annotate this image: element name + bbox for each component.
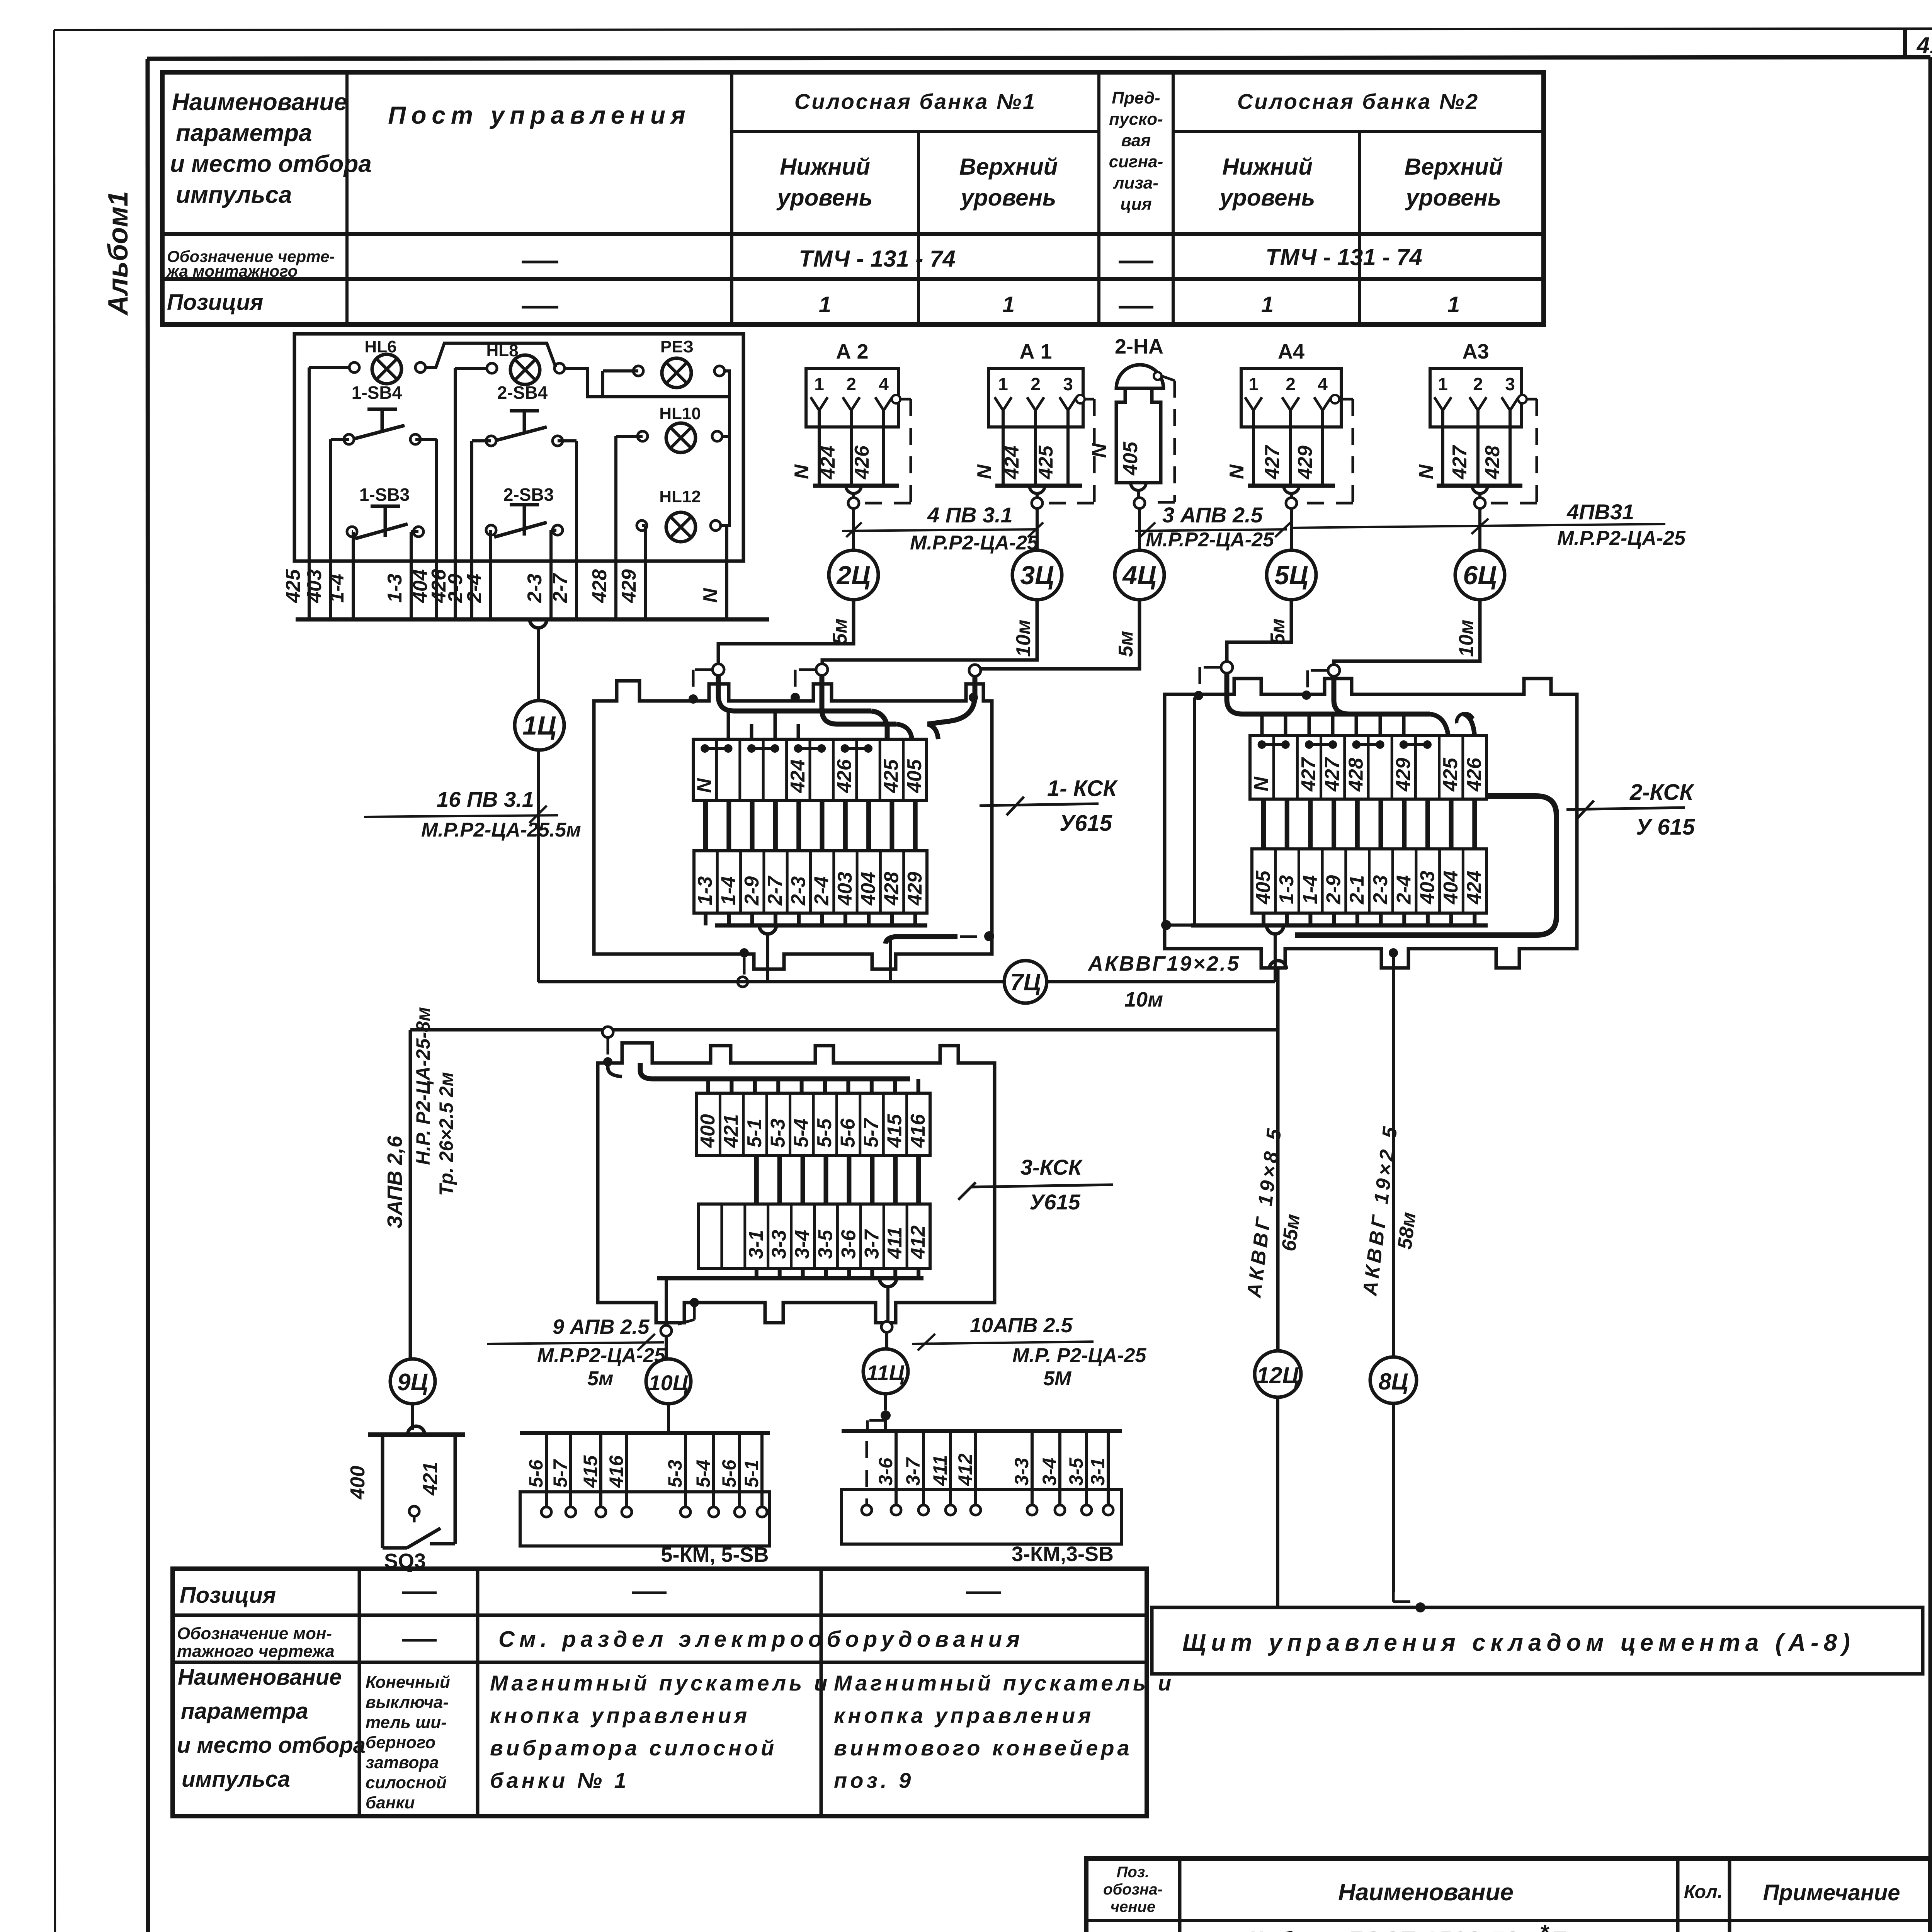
svg-text:выключа-: выключа- [366,1693,449,1712]
svg-text:5-4: 5-4 [692,1460,714,1488]
svg-text:405: 405 [1252,870,1274,905]
svg-text:6Ц: 6Ц [1463,561,1497,590]
svg-text:2-SВ4: 2-SВ4 [497,383,548,403]
specification header [1103,1864,1900,1915]
svg-text:5-6: 5-6 [718,1459,740,1488]
top parameter table [162,72,1544,325]
svg-text:уровень: уровень [1219,185,1315,211]
terminal box 2-KCK outline [1165,679,1577,968]
svg-text:А3: А3 [1462,340,1489,363]
wire 5Ts to 2-KCK [1227,600,1291,662]
lamp HL12 [637,487,721,542]
cable circle 10Ts [646,1359,691,1431]
svg-text:А 1: А 1 [1019,340,1052,363]
svg-text:1-SВ3: 1-SВ3 [359,485,410,505]
svg-text:3-4: 3-4 [791,1230,814,1259]
control post box [294,334,743,561]
svg-text:HL10: HL10 [659,404,701,423]
svg-text:426: 426 [833,759,856,793]
svg-text:банки № 1: банки № 1 [490,1768,629,1793]
svg-text:Позиция: Позиция [167,290,263,315]
svg-text:2-4: 2-4 [463,574,486,603]
svg-text:5-6: 5-6 [837,1118,859,1148]
cable circle 12Ts [1255,1351,1301,1607]
svg-text:затвора: затвора [366,1753,439,1772]
svg-text:3-7: 3-7 [902,1457,924,1486]
push button 1-SB3 [347,485,423,539]
svg-text:8Ц: 8Ц [1378,1369,1408,1395]
svg-text:428: 428 [1481,446,1504,480]
svg-text:Наименование: Наименование [172,89,347,116]
svg-text:Кабель ГОСТ 1508-78: Кабель ГОСТ 1508-78 [1248,1927,1519,1932]
cable circle 1Ts [515,701,564,750]
svg-text:405: 405 [903,759,926,793]
bottom position table [173,1569,1147,1816]
svg-text:уровень: уровень [776,185,873,211]
svg-text:5-1: 5-1 [743,1119,766,1148]
2-KCK entry circles and pe dashes [1194,662,1340,700]
lamp HL10 [638,404,722,452]
svg-text:2-НА: 2-НА [1115,335,1163,358]
2-KCK bottom bus, right loop [1161,697,1556,982]
svg-text:Щит управления складом цеме: Щит управления складом цемента (А-8) [1182,1629,1855,1656]
svg-text:импульса: импульса [176,182,292,208]
svg-text:N: N [699,588,722,603]
bus wire labels [282,569,722,603]
svg-text:7Ц: 7Ц [1010,969,1041,996]
svg-text:5-3: 5-3 [767,1119,789,1148]
svg-text:Верхний: Верхний [1405,154,1503,180]
svg-text:РЕЗ: РЕЗ [660,337,694,356]
cable label 4 PV 3.1 [842,503,1043,554]
svg-text:425: 425 [1439,757,1462,792]
1-KCK upper terminal strip [693,739,927,800]
svg-text:2-3: 2-3 [524,574,546,603]
svg-text:2-1: 2-1 [1346,875,1368,905]
svg-text:405: 405 [1119,441,1142,476]
2-KCK bundle above upper strip [1227,667,1475,735]
cable label 10 APV 2.5 [912,1314,1146,1390]
svg-text:Тр. 26×2.5 2м: Тр. 26×2.5 2м [435,1072,457,1196]
svg-text:416: 416 [907,1114,929,1148]
svg-text:Кол.: Кол. [1684,1882,1723,1902]
svg-text:2-7: 2-7 [764,876,786,906]
2-KCK upper terminal strip [1250,735,1486,799]
svg-text:403: 403 [303,569,326,603]
svg-text:N: N [1250,776,1273,791]
svg-text:1: 1 [814,374,824,394]
svg-text:N: N [973,464,996,479]
svg-text:1-3: 1-3 [384,574,406,603]
svg-text:9Ц: 9Ц [397,1369,428,1396]
svg-text:10м: 10м [1124,988,1163,1011]
1-KCK bundle above upper strip [718,670,975,739]
svg-text:Поз.: Поз. [1117,1864,1150,1881]
svg-text:412: 412 [907,1225,929,1259]
svg-text:11Ц: 11Ц [867,1361,905,1385]
svg-text:5М: 5М [1043,1367,1072,1390]
8Ts riser from 2-KCK [1389,948,1398,1357]
svg-text:Пост управления: Пост управления [388,101,690,129]
terminal box 3-KM,3-SB [842,1431,1122,1566]
cable label 16 PV 3.1 [364,787,581,841]
svg-text:1-4: 1-4 [1299,875,1321,904]
svg-text:5Ц: 5Ц [1274,561,1308,590]
svg-text:2: 2 [1031,374,1041,394]
svg-text:426: 426 [851,445,873,480]
specification table [1086,1859,1930,1932]
svg-text:*: * [1540,1920,1549,1932]
svg-text:403: 403 [834,872,856,906]
svg-text:425: 425 [1035,445,1057,480]
svg-text:А4: А4 [1278,340,1304,363]
svg-text:416: 416 [605,1455,627,1488]
svg-text:N: N [693,778,716,793]
svg-text:3-6: 3-6 [837,1230,860,1259]
svg-text:427: 427 [1321,757,1344,792]
limit switch SQ3 [347,1426,465,1573]
svg-text:411: 411 [929,1455,951,1486]
terminal box 1-KCK outline [594,681,992,969]
svg-text:У615: У615 [1029,1190,1080,1214]
svg-text:1- КСК: 1- КСК [1047,776,1118,801]
svg-text:N: N [1088,443,1111,458]
svg-text:425: 425 [282,569,304,603]
svg-text:65м: 65м [1277,1213,1304,1253]
svg-text:1-SВ4: 1-SВ4 [352,383,402,403]
3-KCK upper terminal strip [697,1093,930,1156]
svg-text:У615: У615 [1060,811,1112,836]
svg-text:16 ПВ 3.1: 16 ПВ 3.1 [437,787,534,811]
svg-text:404: 404 [857,872,879,906]
svg-text:Обозначение мон-: Обозначение мон- [177,1624,332,1643]
svg-text:424: 424 [817,446,839,480]
svg-text:параметра: параметра [176,120,312,146]
svg-text:5-7: 5-7 [549,1459,571,1488]
svg-text:428: 428 [1345,758,1367,792]
svg-text:Альбом1: Альбом1 [103,191,134,316]
svg-text:4ПВ31: 4ПВ31 [1566,500,1634,524]
svg-text:2-9: 2-9 [1322,875,1345,905]
top table header texts [170,88,1503,214]
svg-text:вая: вая [1121,131,1151,150]
svg-text:2-3: 2-3 [787,876,810,906]
svg-text:3: 3 [1505,374,1515,394]
svg-text:уровень: уровень [960,185,1056,211]
svg-text:5-7: 5-7 [860,1118,883,1148]
wire bus under control post [296,619,769,628]
svg-text:9 АПВ 2.5: 9 АПВ 2.5 [553,1315,650,1338]
cable circle 7Ts [1004,961,1047,1003]
svg-text:1-3: 1-3 [694,876,716,905]
svg-text:N: N [1226,464,1248,479]
wire 6Ts to 2-KCK [1334,598,1480,665]
svg-text:См. раздел электрооборудовани: См. раздел электрооборудования [498,1627,1024,1652]
svg-text:1: 1 [1248,374,1259,394]
svg-text:1: 1 [1438,374,1448,394]
svg-text:5м: 5м [1115,631,1137,657]
svg-text:3-1: 3-1 [1087,1458,1109,1486]
svg-text:Пред-: Пред- [1112,88,1160,107]
svg-text:вибратора силосной: вибратора силосной [490,1736,777,1760]
svg-text:кнопка управления: кнопка управления [834,1703,1094,1728]
svg-text:тель ши-: тель ши- [366,1713,447,1732]
svg-text:М.Р.Р2-ЦА-25: М.Р.Р2-ЦА-25 [1557,527,1686,549]
svg-text:3-5: 3-5 [814,1230,837,1259]
svg-text:1-4: 1-4 [326,574,348,603]
svg-text:2-4: 2-4 [1393,875,1415,905]
svg-text:уровень: уровень [1405,185,1502,211]
svg-text:ЗАПВ 2,6: ЗАПВ 2,6 [383,1136,406,1229]
svg-text:2-SВ3: 2-SВ3 [503,485,554,505]
wire 2Ts to 1-KCK [718,600,854,664]
svg-text:3-КСК: 3-КСК [1020,1155,1083,1179]
svg-text:поз. 9: поз. 9 [834,1768,914,1793]
svg-text:426: 426 [1463,757,1485,792]
svg-text:3-6: 3-6 [875,1458,896,1486]
svg-text:424: 424 [1463,871,1486,905]
svg-text:5-4: 5-4 [790,1119,813,1148]
svg-text:425: 425 [880,759,902,793]
svg-text:403: 403 [1416,871,1439,905]
svg-text:10АПВ 2.5: 10АПВ 2.5 [970,1314,1073,1337]
3-KCK bottom bus [657,1269,923,1287]
label 2-KCK U615 [1566,780,1695,840]
svg-text:1-3: 1-3 [1276,875,1298,904]
svg-text:параметра: параметра [181,1699,308,1724]
cable labels on 8Ts riser [1359,1122,1420,1298]
svg-text:1: 1 [819,292,831,317]
svg-text:1: 1 [1447,292,1460,317]
album label [103,191,134,316]
svg-text:ция: ция [1120,195,1151,214]
svg-text:У 615: У 615 [1636,815,1695,840]
svg-text:и место отбора: и место отбора [170,151,372,177]
3-KCK inter-strip connectors [757,1156,918,1204]
wire 11Ts [863,1287,892,1349]
svg-text:2-4: 2-4 [811,876,833,906]
lamp PE3 [633,337,724,388]
svg-text:М.Р.Р2-ЦА-25: М.Р.Р2-ЦА-25 [1146,529,1274,551]
svg-text:411: 411 [884,1227,906,1259]
label 3-KCK U615 [958,1155,1113,1214]
2-KCK inter-strip connectors [1264,799,1475,849]
svg-text:2: 2 [1286,374,1296,394]
label 1-KCK U615 [980,776,1118,836]
svg-text:Е: Е [1551,1927,1566,1932]
svg-text:421: 421 [720,1114,743,1148]
svg-text:N: N [791,464,813,479]
svg-text:427: 427 [1449,445,1471,480]
3-KCK lower terminal strip [699,1204,930,1269]
svg-text:424: 424 [787,759,809,793]
svg-text:3: 3 [1063,374,1073,394]
svg-text:Примечание: Примечание [1763,1880,1900,1905]
svg-text:и место отбора: и место отбора [177,1733,366,1758]
svg-text:2-3: 2-3 [1369,875,1392,905]
svg-text:5-5: 5-5 [813,1118,836,1148]
cable circle 11Ts [863,1349,908,1431]
svg-text:5-3: 5-3 [664,1460,686,1488]
svg-text:тажного чертежа: тажного чертежа [177,1642,335,1661]
svg-text:Наименование: Наименование [1338,1879,1514,1906]
svg-text:Силосная банка №1: Силосная банка №1 [794,89,1036,114]
terminal box 3-KCK outline [598,1043,995,1323]
svg-text:берного: берного [366,1733,435,1752]
svg-text:3-3: 3-3 [1011,1458,1032,1486]
svg-text:Магнитный пускатель и: Магнитный пускатель и [834,1671,1174,1695]
push button 2-SB3 [486,485,563,537]
specification rows [1182,1920,1775,1932]
svg-text:415: 415 [883,1114,906,1148]
page number box 41 [1905,29,1932,58]
cable circle 8Ts [1370,1357,1425,1612]
terminal box 5-KM,5-SB [520,1433,770,1566]
svg-text:винтового конвейера: винтового конвейера [834,1736,1133,1760]
svg-text:1Ц: 1Ц [522,711,556,740]
svg-text:Магнитный пускатель и: Магнитный пускатель и [490,1671,830,1695]
1-KCK entry circles and pe dashes [689,664,981,704]
connector A2 [791,340,911,645]
wire 3Ts to 1-KCK [822,600,1037,664]
svg-text:Конечный: Конечный [366,1673,450,1692]
svg-text:М.Р.Р2-ЦА-25: М.Р.Р2-ЦА-25 [910,532,1039,554]
svg-text:обозна-: обозна- [1103,1881,1163,1898]
cement store control board box [1152,1607,1923,1674]
svg-text:10Ц: 10Ц [648,1371,688,1395]
svg-text:М.Р.Р2-ЦА-25: М.Р.Р2-ЦА-25 [537,1344,666,1367]
svg-text:ТМЧ - 131 - 74: ТМЧ - 131 - 74 [1265,244,1422,270]
wire 10Ts [661,1278,699,1358]
svg-text:3 АПВ 2.5: 3 АПВ 2.5 [1162,503,1263,527]
svg-text:2-9: 2-9 [741,876,763,906]
connector A4 [1226,340,1353,645]
svg-text:Позиция: Позиция [180,1583,276,1608]
wire 1Ts riser and 7Ts link [538,628,1275,982]
svg-text:429: 429 [1294,446,1316,480]
svg-text:5м: 5м [587,1367,613,1390]
svg-text:4Ц: 4Ц [1122,561,1156,590]
svg-text:404: 404 [1440,871,1462,905]
svg-text:429: 429 [904,872,926,906]
svg-text:силосной: силосной [366,1773,447,1792]
horn 2-HA [975,335,1175,669]
svg-text:5м: 5м [829,619,851,645]
svg-text:Верхний: Верхний [959,154,1058,180]
push button 1-SB4 [344,383,420,444]
svg-text:58м: 58м [1393,1211,1420,1251]
1-KCK bottom bus and teeth [706,913,994,987]
svg-text:Нижний: Нижний [1222,154,1313,180]
connector A1 [973,340,1094,657]
lamp HL6 [349,337,425,384]
svg-text:М.Р.Р2-ЦА-25.5м: М.Р.Р2-ЦА-25.5м [421,819,581,841]
svg-text:428: 428 [588,569,611,603]
connector A3 [1415,340,1537,657]
svg-text:1-4: 1-4 [717,876,740,905]
cable label 9 APV 2.5 [487,1315,666,1390]
svg-text:3-КМ,3-SВ: 3-КМ,3-SВ [1012,1543,1114,1566]
cable labels on 12Ts riser [1243,1124,1304,1299]
svg-text:М.Р. Р2-ЦА-25: М.Р. Р2-ЦА-25 [1012,1344,1146,1367]
svg-text:41: 41 [1917,32,1932,58]
svg-text:банки: банки [366,1793,415,1812]
bottom table texts [177,1583,1174,1812]
svg-text:421: 421 [419,1462,442,1496]
svg-text:2Ц: 2Ц [836,561,870,590]
cable circle 9Ts [390,1359,435,1430]
svg-text:лиза-: лиза- [1113,173,1158,192]
svg-text:12Ц: 12Ц [1257,1362,1299,1388]
svg-text:3-4: 3-4 [1039,1458,1060,1486]
svg-text:429: 429 [618,569,640,603]
3-KCK bundle above upper strip [608,1063,918,1093]
svg-text:импульса: импульса [182,1767,290,1792]
top table row: drawing designation [166,244,1422,280]
svg-text:400: 400 [347,1466,369,1500]
svg-text:427: 427 [1298,757,1320,792]
svg-text:10м: 10м [1455,620,1478,657]
svg-text:3-7: 3-7 [861,1229,883,1259]
svg-text:Наименование: Наименование [178,1665,342,1690]
svg-text:жа монтажного: жа монтажного [166,262,298,280]
svg-text:сигна-: сигна- [1109,152,1163,171]
internal wires of control post [309,343,730,619]
svg-text:3-5: 3-5 [1065,1458,1087,1486]
2-KCK lower terminal strip [1252,849,1486,913]
svg-text:5-1: 5-1 [741,1460,762,1488]
svg-text:А 2: А 2 [836,340,868,363]
svg-text:4 ПВ 3.1: 4 ПВ 3.1 [927,503,1013,527]
svg-text:кнопка управления: кнопка управления [490,1703,750,1728]
svg-text:1: 1 [998,374,1008,394]
svg-text:2-7: 2-7 [549,573,571,603]
svg-text:пуско-: пуско- [1109,110,1163,129]
svg-text:2-КСК: 2-КСК [1629,780,1694,805]
cable label 3 APV 2.5 [1135,503,1291,551]
svg-text:428: 428 [881,872,903,906]
svg-text:3Ц: 3Ц [1020,561,1054,590]
svg-text:2: 2 [1473,374,1483,394]
long wire to 9Ts and 12Ts [410,961,1286,1359]
svg-text:5-6: 5-6 [525,1459,547,1488]
cable label 4 PV 31 [1291,500,1686,549]
svg-text:5-КМ, 5-SВ: 5-КМ, 5-SВ [661,1543,769,1566]
svg-text:412: 412 [954,1453,976,1486]
svg-text:424: 424 [1001,446,1023,480]
svg-text:10м: 10м [1012,620,1035,657]
svg-text:429: 429 [1392,758,1415,792]
svg-text:3-1: 3-1 [745,1230,767,1259]
push button 2-SB4 [486,383,563,446]
svg-text:Силосная банка №2: Силосная банка №2 [1237,89,1479,114]
svg-text:400: 400 [697,1114,719,1148]
svg-text:АКВВГ19×2.5: АКВВГ19×2.5 [1087,952,1240,975]
lamp HL8 [486,341,565,384]
1-KCK inter-strip connectors [706,800,915,851]
svg-text:Нижний: Нижний [780,154,870,180]
svg-text:4: 4 [879,374,889,394]
svg-text:ТМЧ - 131 - 74: ТМЧ - 131 - 74 [799,246,956,272]
svg-text:1: 1 [1261,292,1274,317]
top table row: position [167,290,1460,317]
cable labels on 9Ts riser [383,1007,457,1229]
svg-text:2: 2 [846,374,856,394]
svg-text:HL12: HL12 [659,487,701,506]
svg-text:Н.Р. Р2-ЦА-25-8м: Н.Р. Р2-ЦА-25-8м [412,1007,434,1165]
svg-text:чение: чение [1111,1898,1155,1915]
svg-text:N: N [1415,464,1437,479]
